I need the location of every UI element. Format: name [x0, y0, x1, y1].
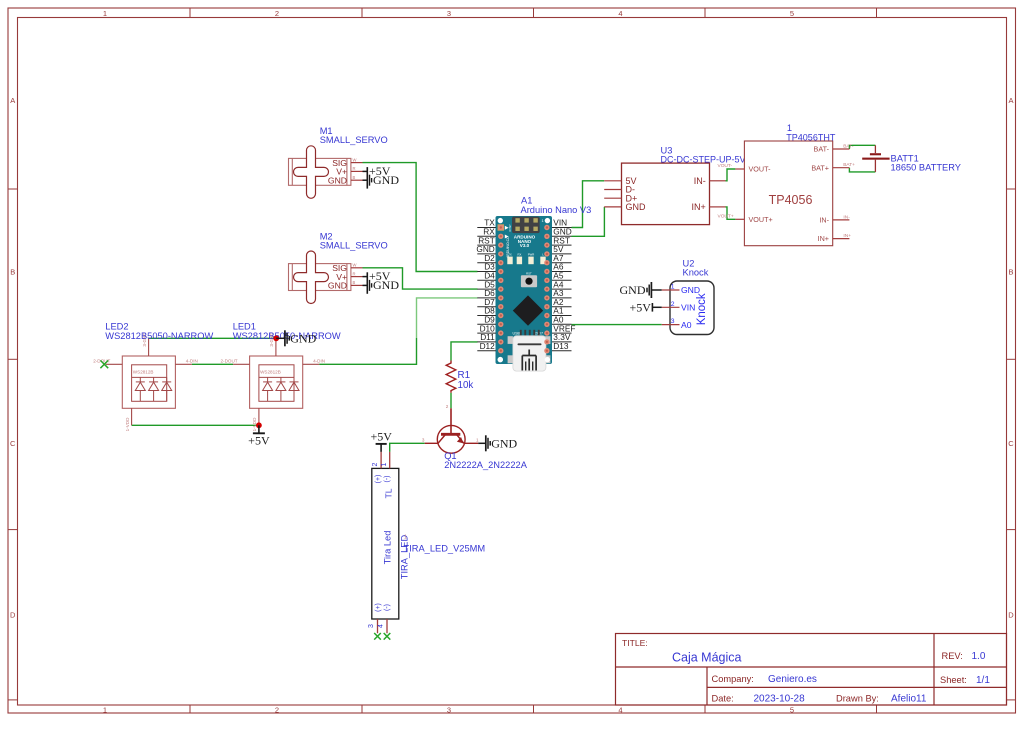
wire Arduino A0 to U2 A0 [572, 324, 662, 326]
op-amp? no: Arduino Nano board A1 [496, 196, 592, 372]
svg-text:ICSP: ICSP [508, 224, 512, 231]
svg-text:Company:: Company: [712, 674, 754, 684]
svg-text:REV:: REV: [942, 651, 963, 661]
svg-text:1: 1 [381, 462, 388, 466]
svg-text:TP4056: TP4056 [769, 193, 813, 207]
junction LED1 VDD pin [256, 422, 262, 428]
svg-text:Sheet:: Sheet: [940, 675, 967, 685]
svg-text:TL: TL [384, 488, 394, 498]
svg-text:3: 3 [671, 318, 675, 325]
svg-text:Drawn By:: Drawn By: [836, 694, 879, 704]
svg-text:TX: TX [508, 253, 512, 257]
svg-text:SMALL_SERVO: SMALL_SERVO [320, 135, 388, 145]
svg-text:TP4056THT: TP4056THT [786, 132, 836, 142]
svg-text:Tira Led: Tira Led [383, 531, 393, 565]
ruler letters right [1008, 96, 1014, 620]
Arduino left pin leader lines [477, 228, 496, 351]
LED1 WS2812B5050-NARROW [220, 332, 325, 432]
svg-text:GND: GND [491, 437, 517, 451]
svg-text:VOUT-: VOUT- [718, 163, 733, 169]
TP4056 pin BAT+ [833, 167, 850, 169]
svg-text:IN+: IN+ [843, 233, 851, 239]
wire U3 IN+ to TP4056 VOUT+ [726, 207, 736, 219]
svg-text:2: 2 [446, 404, 449, 409]
wire D6 to LED1 DIN (light segment) [417, 298, 478, 338]
U3 pin names [626, 176, 647, 212]
svg-text:TITLE:: TITLE: [622, 638, 648, 648]
no-connect X on LED2 DOUT [100, 360, 108, 368]
svg-text:IN-: IN- [694, 176, 706, 186]
svg-text:BAT-: BAT- [843, 144, 854, 150]
U3 pin D+ [604, 197, 621, 199]
U3 pin IN+ [710, 206, 726, 208]
ground symbol at U2 GND (mirrored) [652, 289, 662, 291]
svg-text:3: 3 [422, 438, 425, 443]
TP4056 pin BAT- [833, 148, 850, 150]
svg-text:1: 1 [404, 535, 407, 541]
svg-text:VOUT+: VOUT+ [749, 215, 773, 224]
wire D6 to LED1 DIN (lower segment) [319, 338, 416, 364]
ICSP header [512, 217, 540, 234]
svg-text:Geniero.es: Geniero.es [768, 674, 817, 685]
svg-text:C: C [1008, 439, 1014, 448]
svg-text:2: 2 [275, 9, 279, 18]
wire Q1 collector to Tira Led pin1 [390, 443, 425, 452]
svg-text:(+): (+) [375, 475, 382, 484]
resistor R1 [446, 361, 456, 393]
wire TP4056 BAT+ to battery positive [849, 168, 875, 172]
svg-text:RST: RST [526, 271, 532, 275]
TP4056 pin IN- [833, 219, 850, 221]
svg-text:4: 4 [378, 624, 385, 628]
transistor Q1 [425, 408, 479, 453]
svg-text:1: 1 [103, 9, 107, 18]
module TP4056 box [744, 141, 832, 246]
svg-text:VIN: VIN [681, 303, 695, 313]
svg-text:5: 5 [790, 9, 794, 18]
module U2 Knock box [670, 281, 714, 335]
USB mini-B connector [513, 336, 546, 371]
U3 pin IN- [710, 180, 726, 182]
servo M2 [289, 251, 400, 304]
ATmega chip diamond [513, 295, 543, 325]
TP4056 pin VOUT- [735, 168, 744, 170]
U2 pin numbers [671, 284, 675, 326]
wire Arduino GND to U3 GND [572, 207, 605, 236]
svg-text:(-): (-) [384, 604, 391, 611]
svg-text:+5V: +5V [248, 434, 270, 448]
U2 pin 1 GND [662, 289, 680, 291]
U2 pin names [681, 285, 700, 330]
junction LED1 GND pin [273, 335, 279, 341]
wire TP4056 BAT- to battery negative [849, 145, 875, 149]
ruler ticks bottom [190, 705, 877, 713]
+5V symbol at U2 VIN [652, 306, 661, 308]
Tira Led pin 2 [380, 452, 382, 469]
Tira Led pin 1 [389, 452, 391, 469]
svg-text:PWR: PWR [528, 253, 535, 257]
svg-text:D: D [1008, 611, 1014, 620]
svg-text:1.0: 1.0 [972, 651, 986, 662]
svg-text:BAT+: BAT+ [843, 162, 855, 168]
svg-text:SMALL_SERVO: SMALL_SERVO [320, 240, 388, 250]
ruler ticks left [8, 189, 18, 700]
svg-text:RX: RX [517, 253, 521, 257]
svg-text:2: 2 [671, 301, 675, 308]
U2 pin 3 A0 [662, 324, 680, 326]
wire LED GND net (LED2 pin3 to LED1 pin3) [149, 337, 277, 339]
svg-text:1: 1 [476, 438, 479, 443]
wire D11 to R1 [451, 342, 478, 361]
svg-text:A: A [10, 96, 15, 105]
svg-text:B: B [1008, 268, 1013, 277]
Tira Led pin 3 [377, 619, 379, 633]
TP4056 outside pin numbers [718, 144, 856, 240]
TP4056 left pin names [749, 165, 773, 224]
mounting holes [498, 218, 503, 223]
no-connect X on Tira Led pin 3 [374, 633, 381, 640]
no-connect X on Tira Led pin 4 [384, 633, 391, 640]
svg-text:IN+: IN+ [692, 202, 706, 212]
svg-text:BAT-: BAT- [814, 145, 830, 154]
svg-text:Arduino Nano V3: Arduino Nano V3 [521, 205, 592, 215]
left pad centers [500, 226, 502, 352]
svg-text:V3.0: V3.0 [520, 243, 530, 248]
USB pins [520, 330, 540, 336]
svg-text:Caja Mágica: Caja Mágica [672, 651, 742, 665]
svg-text:3: 3 [368, 624, 375, 628]
wire M1 SIG to D3 [363, 163, 478, 272]
svg-text:D: D [10, 611, 16, 620]
svg-text:10k: 10k [458, 380, 474, 391]
svg-text:1: 1 [671, 284, 675, 291]
svg-text:BAT+: BAT+ [811, 163, 829, 172]
svg-text:Knock: Knock [683, 268, 709, 278]
TX/RX silk triangles [505, 226, 509, 230]
TP4056 right pin names [811, 145, 829, 244]
left pin pads [498, 225, 504, 354]
ruler numbers bottom [103, 706, 794, 715]
U3 pin 5V [604, 180, 621, 182]
wire M2 SIG to D5 [363, 268, 478, 289]
svg-text:D12: D12 [480, 341, 496, 351]
svg-text:5: 5 [790, 706, 794, 715]
svg-text:+5V: +5V [370, 429, 392, 443]
svg-text:IN+: IN+ [818, 234, 829, 243]
svg-text:2N2222A_2N2222A: 2N2222A_2N2222A [444, 460, 528, 470]
TP4056 pin IN+ [833, 238, 850, 240]
svg-text:D13: D13 [553, 341, 569, 351]
U2 pin 2 VIN [662, 306, 680, 308]
svg-text:VOUT-: VOUT- [749, 165, 772, 174]
Tira Led pin 4 [386, 619, 388, 633]
battery BATT1 symbol [870, 153, 881, 155]
svg-text:2: 2 [372, 462, 379, 466]
svg-text:TIRA_LED: TIRA_LED [399, 535, 409, 580]
right pad centers [546, 226, 548, 352]
wire LED1 DOUT to LED2 DIN [192, 363, 233, 365]
silk text ARDUINO NANO V3.0 [514, 235, 536, 249]
svg-text:DC-DC-STEP-UP-5V: DC-DC-STEP-UP-5V [661, 154, 746, 164]
svg-text:Date:: Date: [712, 694, 734, 704]
svg-text:3: 3 [447, 706, 451, 715]
svg-text:Knock: Knock [696, 293, 708, 325]
svg-text:1/1: 1/1 [976, 675, 990, 686]
U3 pin D- [604, 189, 621, 191]
svg-text:IN-: IN- [819, 216, 829, 225]
wire R1 to Q1 base [450, 393, 452, 409]
svg-text:18650 BATTERY: 18650 BATTERY [891, 163, 961, 173]
svg-text:C: C [10, 439, 16, 448]
svg-text:A: A [1008, 96, 1013, 105]
module U3 DC-DC-STEP-UP-5V box [622, 163, 710, 225]
Arduino Nano board body [496, 216, 553, 364]
servo M1 [289, 146, 400, 199]
svg-text:+5V: +5V [629, 300, 651, 314]
wire Arduino VIN to U3 5V [572, 181, 605, 228]
svg-text:Afelio11: Afelio11 [891, 694, 927, 705]
title block outline [616, 634, 1007, 706]
svg-text:USB: USB [513, 331, 521, 335]
svg-text:TIRA_LED_V25MM: TIRA_LED_V25MM [404, 544, 486, 554]
right pin pads [544, 225, 549, 354]
svg-text:GND: GND [290, 332, 316, 346]
svg-text:2: 2 [275, 706, 279, 715]
connector TL (Tira Led) body [372, 468, 399, 619]
wire LED VDD net (LED2 pin1 to LED1 pin1) [132, 424, 259, 426]
svg-text:VOUT+: VOUT+ [718, 214, 734, 220]
svg-text:IN-: IN- [843, 214, 850, 220]
LED2 WS2812B5050-NARROW [93, 332, 198, 432]
USB shell side tabs [508, 336, 551, 363]
Arduino right pin leader lines [552, 228, 572, 351]
svg-text:(+): (+) [375, 603, 382, 612]
svg-text:(-): (-) [384, 476, 391, 483]
ground symbol at Q1 emitter [478, 442, 485, 444]
svg-text:1: 1 [103, 706, 107, 715]
ruler ticks right [1007, 189, 1016, 700]
Arduino right pin labels [553, 218, 575, 351]
svg-text:GND: GND [626, 202, 647, 212]
svg-text:GND: GND [620, 283, 646, 297]
LED indicators TX RX PWR L [508, 253, 544, 257]
wire U3 IN- to TP4056 VOUT- [726, 169, 736, 181]
ruler numbers top [103, 9, 794, 18]
svg-text:B: B [10, 268, 15, 277]
svg-text:A0: A0 [681, 320, 692, 330]
svg-text:4: 4 [618, 9, 622, 18]
svg-text:3: 3 [447, 9, 451, 18]
ground symbol at LED1 [276, 337, 284, 339]
TP4056 pin VOUT+ [735, 218, 744, 220]
Arduino left pin labels [476, 218, 495, 351]
ruler ticks top [190, 8, 877, 18]
svg-text:2023-10-28: 2023-10-28 [754, 694, 806, 705]
+5V symbol below LED1 [258, 425, 260, 433]
mounting holes bottom (over tabs) [498, 357, 503, 362]
svg-text:WS2812B5050-NARROW: WS2812B5050-NARROW [105, 331, 213, 341]
svg-text:4: 4 [618, 706, 622, 715]
U3 pin GND [604, 206, 621, 208]
ruler letters left [10, 96, 16, 620]
